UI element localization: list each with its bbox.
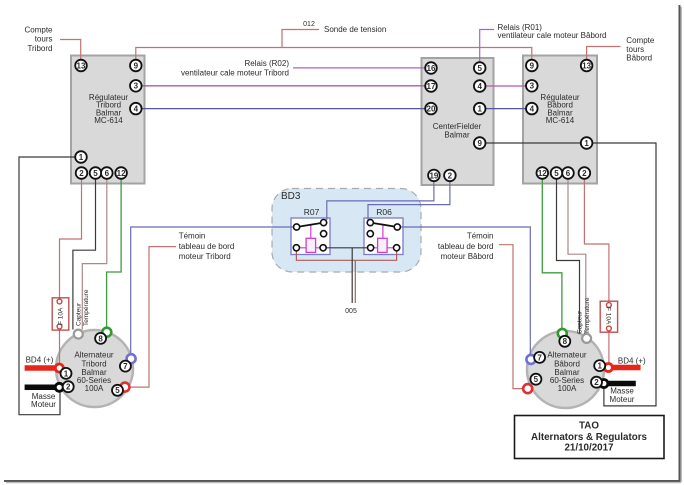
svg-text:ventilateur cale moteur Bâbord: ventilateur cale moteur Bâbord (498, 31, 607, 40)
svg-text:BD4 (+): BD4 (+) (618, 356, 646, 365)
svg-text:Température: Température (584, 297, 591, 334)
svg-text:Témoin: Témoin (179, 232, 206, 241)
svg-text:R06: R06 (376, 207, 392, 217)
svg-text:5: 5 (115, 386, 120, 395)
svg-text:5: 5 (534, 375, 539, 384)
svg-text:F 10A: F 10A (58, 307, 65, 325)
svg-text:F 10A: F 10A (605, 307, 612, 325)
svg-text:13: 13 (77, 61, 86, 70)
svg-text:6: 6 (566, 169, 571, 178)
svg-text:Capteur: Capteur (576, 310, 583, 334)
svg-text:2: 2 (582, 169, 587, 178)
svg-text:100A: 100A (558, 384, 577, 393)
svg-text:Relais (R02): Relais (R02) (245, 59, 290, 68)
svg-text:5: 5 (554, 169, 559, 178)
svg-text:Moteur: Moteur (31, 400, 56, 409)
svg-text:8: 8 (563, 337, 568, 346)
svg-text:ventilateur cale moteur Tribor: ventilateur cale moteur Tribord (181, 69, 289, 78)
svg-text:13: 13 (582, 61, 591, 70)
svg-text:012: 012 (303, 21, 315, 28)
svg-text:Bâbord: Bâbord (626, 54, 652, 63)
svg-text:12: 12 (117, 169, 126, 178)
svg-text:7: 7 (537, 353, 542, 362)
svg-text:Alternateur: Alternateur (74, 350, 113, 359)
svg-text:BD4 (+): BD4 (+) (26, 356, 54, 365)
svg-text:Tribord: Tribord (27, 44, 52, 53)
svg-text:Moteur: Moteur (610, 395, 635, 404)
svg-text:9: 9 (477, 139, 482, 148)
svg-text:19: 19 (429, 171, 438, 180)
svg-text:12: 12 (538, 169, 547, 178)
svg-text:5: 5 (93, 169, 98, 178)
svg-text:4: 4 (530, 105, 535, 114)
svg-text:100A: 100A (85, 384, 104, 393)
svg-text:6: 6 (105, 169, 110, 178)
svg-text:1: 1 (477, 105, 482, 114)
svg-text:R07: R07 (304, 207, 320, 217)
svg-text:CenterFielder: CenterFielder (433, 122, 482, 131)
svg-text:17: 17 (427, 82, 436, 91)
svg-text:BD3: BD3 (281, 191, 301, 202)
svg-text:5: 5 (477, 64, 482, 73)
svg-text:3: 3 (530, 82, 535, 91)
svg-text:moteur Tribord: moteur Tribord (179, 252, 231, 261)
svg-text:MC-614: MC-614 (546, 116, 575, 125)
svg-text:2: 2 (66, 383, 71, 392)
svg-text:4: 4 (477, 82, 482, 91)
svg-text:Balmar: Balmar (444, 131, 470, 140)
svg-text:Compte: Compte (24, 26, 53, 35)
svg-text:1: 1 (64, 369, 69, 378)
svg-text:9: 9 (530, 61, 535, 70)
svg-text:2: 2 (594, 378, 599, 387)
svg-text:1: 1 (597, 362, 602, 371)
svg-text:20: 20 (427, 105, 436, 114)
svg-text:16: 16 (427, 64, 436, 73)
svg-text:21/10/2017: 21/10/2017 (564, 443, 614, 454)
svg-text:1: 1 (79, 153, 84, 162)
svg-text:9: 9 (134, 61, 139, 70)
svg-text:tours: tours (35, 35, 53, 44)
svg-text:Compte: Compte (626, 36, 655, 45)
svg-text:2: 2 (448, 171, 453, 180)
svg-text:MC-614: MC-614 (94, 116, 123, 125)
svg-text:tableau de bord: tableau de bord (438, 242, 494, 251)
svg-text:2: 2 (79, 169, 84, 178)
svg-text:Alternators & Regulators: Alternators & Regulators (531, 432, 648, 443)
svg-text:7: 7 (123, 362, 128, 371)
svg-text:tableau de bord: tableau de bord (179, 242, 235, 251)
svg-text:TAO: TAO (579, 421, 599, 432)
svg-text:4: 4 (134, 105, 139, 114)
svg-text:Témoin: Témoin (467, 232, 494, 241)
svg-text:Température: Température (83, 289, 90, 326)
svg-text:Sonde de tension: Sonde de tension (324, 25, 386, 34)
svg-text:3: 3 (134, 82, 139, 91)
svg-text:moteur Bâbord: moteur Bâbord (441, 252, 494, 261)
svg-text:Capteur: Capteur (75, 302, 82, 326)
svg-text:1: 1 (584, 139, 589, 148)
svg-text:Alternateur: Alternateur (547, 350, 586, 359)
svg-text:8: 8 (98, 334, 103, 343)
svg-text:005: 005 (345, 308, 357, 315)
